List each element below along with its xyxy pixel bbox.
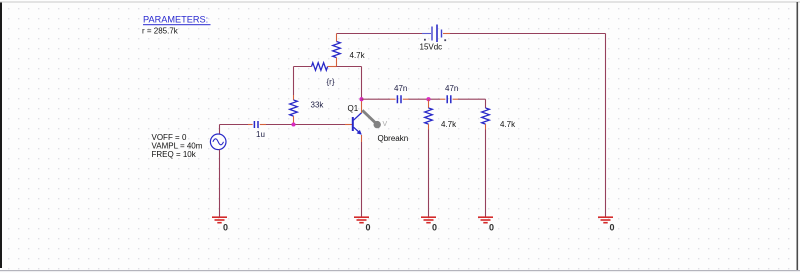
transistor Q1 collector stub (361, 99, 363, 113)
ground symbol under emitter (354, 217, 369, 223)
svg-text:FREQ = 10k: FREQ = 10k (152, 150, 197, 159)
resistor R1 33k vertical (290, 100, 298, 116)
wire right vertical down to ground (605, 34, 607, 217)
transistor Q1 base bar (352, 117, 354, 131)
svg-text:{r}: {r} (327, 77, 335, 86)
wire C2 to junction (409, 98, 441, 100)
resistor R6 4.7k body (482, 108, 490, 124)
svg-text:33k: 33k (311, 100, 325, 109)
svg-text:0: 0 (366, 222, 371, 232)
svg-text:PARAMETERS:: PARAMETERS: (143, 15, 208, 25)
svg-text:0: 0 (489, 222, 494, 232)
capacitor C1 1u plates (254, 121, 258, 128)
junction node at base/33k (291, 122, 295, 126)
transistor Q1 emitter diagonal with arrow (354, 127, 360, 133)
resistor R5 4.7k body (425, 108, 433, 124)
svg-text:4.7k: 4.7k (350, 51, 366, 60)
sine source V2 circle (210, 134, 226, 150)
svg-text:Qbreakn: Qbreakn (378, 134, 409, 143)
wire top rail right (battery to right corner) (450, 33, 606, 35)
wire left column from {r} down to 33k (293, 67, 295, 96)
battery V1 right pin stub (443, 33, 450, 35)
window border frame (0, 2, 2, 268)
svg-text:Q1: Q1 (348, 104, 359, 113)
svg-text:4.7k: 4.7k (500, 120, 516, 129)
resistor R5 4.7k lead (428, 99, 430, 108)
resistor R6 bottom wire (485, 124, 487, 129)
svg-text:1u: 1u (256, 130, 265, 139)
source V2 stem bottom to ground (219, 150, 221, 217)
resistor R4 {r} horizontal (294, 66, 312, 68)
svg-text:0: 0 (610, 222, 615, 232)
ground symbol under source (212, 217, 227, 223)
battery V1 left pin stub (422, 33, 431, 35)
svg-text:47n: 47n (394, 84, 407, 93)
svg-text:V: V (383, 121, 388, 128)
voltage probe marker (362, 110, 377, 124)
ground symbol right rail (598, 217, 613, 223)
capacitor C3 47n (440, 98, 445, 100)
svg-text:4.7k: 4.7k (441, 120, 457, 129)
wire collector column upper (361, 67, 363, 100)
junction node at collector (359, 97, 363, 101)
capacitor C2 47n (390, 98, 396, 100)
battery plus/minus marks (424, 39, 426, 41)
junction node at R5 top (426, 97, 430, 101)
wire C3 to right corner (458, 98, 486, 100)
svg-text:47n: 47n (445, 84, 458, 93)
resistor R3 4.7k top vertical (336, 34, 338, 42)
wire from C1 to transistor base (266, 124, 345, 126)
resistor R5 bottom wire (428, 124, 430, 129)
ground symbol under R5 (421, 217, 436, 223)
wire right output corner down (485, 99, 487, 108)
wire from R3 bottom right to collector column (337, 66, 362, 68)
transistor Q1 emitter wire down to ground (361, 135, 363, 142)
sine wave glyph (213, 139, 224, 145)
source V2 stem top (219, 125, 221, 135)
ground symbol under R6 (478, 217, 493, 223)
wire top rail left (R3 top to battery) (337, 33, 423, 35)
wire main horizontal from source corner to cap C1 (220, 124, 253, 126)
wire collector to C2 (362, 98, 391, 100)
battery V1 15Vdc plates (432, 25, 442, 43)
svg-text:15Vdc: 15Vdc (420, 42, 443, 51)
svg-text:0: 0 (432, 222, 437, 232)
svg-text:0: 0 (223, 222, 228, 232)
transistor Q1 collector diagonal (354, 113, 362, 121)
svg-text:r = 285.7k: r = 285.7k (142, 26, 179, 35)
